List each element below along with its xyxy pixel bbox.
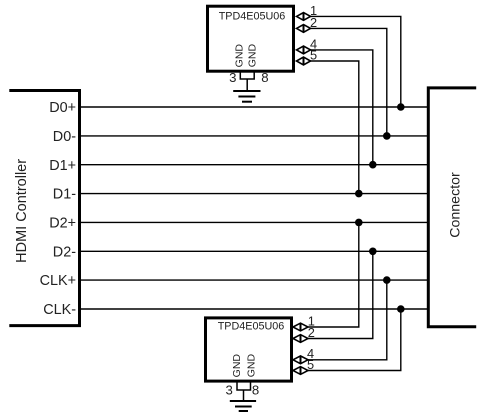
junction CLK-: [397, 305, 405, 313]
wire CLK+: [81, 279, 428, 281]
svg-text:8: 8: [261, 70, 268, 85]
HDMI Controller block: [9, 91, 79, 326]
wire D2+: [81, 221, 428, 223]
wire D0+: [81, 106, 428, 108]
wire U2 pin4 to CLK+: [308, 280, 387, 360]
svg-text:GND: GND: [245, 354, 257, 378]
U2 diode pin 5: [293, 357, 314, 375]
U2 diode pin 4: [293, 346, 314, 364]
U1 diode pin 4: [297, 36, 318, 54]
wire CLK-: [81, 308, 428, 310]
svg-text:GND: GND: [234, 44, 246, 68]
wire U2 to ground: [243, 390, 245, 401]
wire U2 pin5 to CLK-: [308, 309, 401, 371]
U2 diode pin 2: [293, 325, 315, 343]
ESD protection U1 TPD4E05U06 (top): [208, 6, 294, 71]
svg-text:8: 8: [252, 382, 259, 397]
U2 ground notch: [237, 382, 251, 391]
ESD protection U2 TPD4E05U06 (bottom): [206, 318, 292, 381]
svg-text:GND: GND: [231, 354, 243, 378]
svg-text:TPD4E05U06: TPD4E05U06: [219, 11, 286, 23]
junction D2+: [355, 219, 363, 227]
Connector block: [428, 88, 476, 327]
junction D2-: [369, 248, 377, 256]
wire D0-: [81, 135, 428, 137]
wire U2 pin2 to D2-: [308, 251, 373, 338]
junction CLK+: [383, 276, 391, 284]
svg-text:Connector: Connector: [448, 172, 464, 238]
svg-text:3: 3: [229, 70, 236, 85]
svg-text:D2+: D2+: [49, 216, 76, 232]
svg-text:D2-: D2-: [53, 244, 76, 260]
U1 diode pin 2: [297, 15, 318, 33]
svg-text:D1+: D1+: [49, 158, 76, 174]
svg-text:CLK+: CLK+: [40, 273, 76, 289]
U2 diode pin 1: [293, 313, 315, 331]
svg-text:CLK-: CLK-: [43, 302, 76, 318]
wire U1 pin5 to D1-: [311, 61, 359, 194]
U1 diode pin 1: [297, 3, 318, 21]
wire D2-: [81, 250, 428, 252]
junction D0+: [397, 103, 405, 111]
svg-text:D0-: D0-: [53, 129, 76, 145]
svg-text:HDMI Controller: HDMI Controller: [14, 159, 30, 263]
ground symbol (top): [233, 91, 260, 102]
wire U1 pin4 to D1+: [311, 50, 373, 165]
svg-text:GND: GND: [246, 44, 258, 68]
junction D1+: [369, 161, 377, 169]
wire D1+: [81, 164, 428, 166]
junction D0-: [383, 132, 391, 140]
wire U1 pin2 to D0-: [311, 28, 387, 135]
svg-text:D1-: D1-: [53, 187, 76, 203]
wire U1 to ground: [246, 79, 248, 91]
U1 ground notch: [240, 72, 254, 80]
ground symbol (bottom): [230, 401, 256, 411]
U1 diode pin 5: [297, 47, 318, 65]
wire U1 pin1 to D0+: [311, 16, 401, 107]
svg-text:TPD4E05U06: TPD4E05U06: [218, 321, 285, 333]
wire U2 pin1 to D2+: [308, 222, 359, 327]
junction D1-: [355, 190, 363, 198]
wire D1-: [81, 193, 428, 195]
svg-text:D0+: D0+: [49, 100, 76, 116]
svg-text:3: 3: [226, 382, 233, 397]
